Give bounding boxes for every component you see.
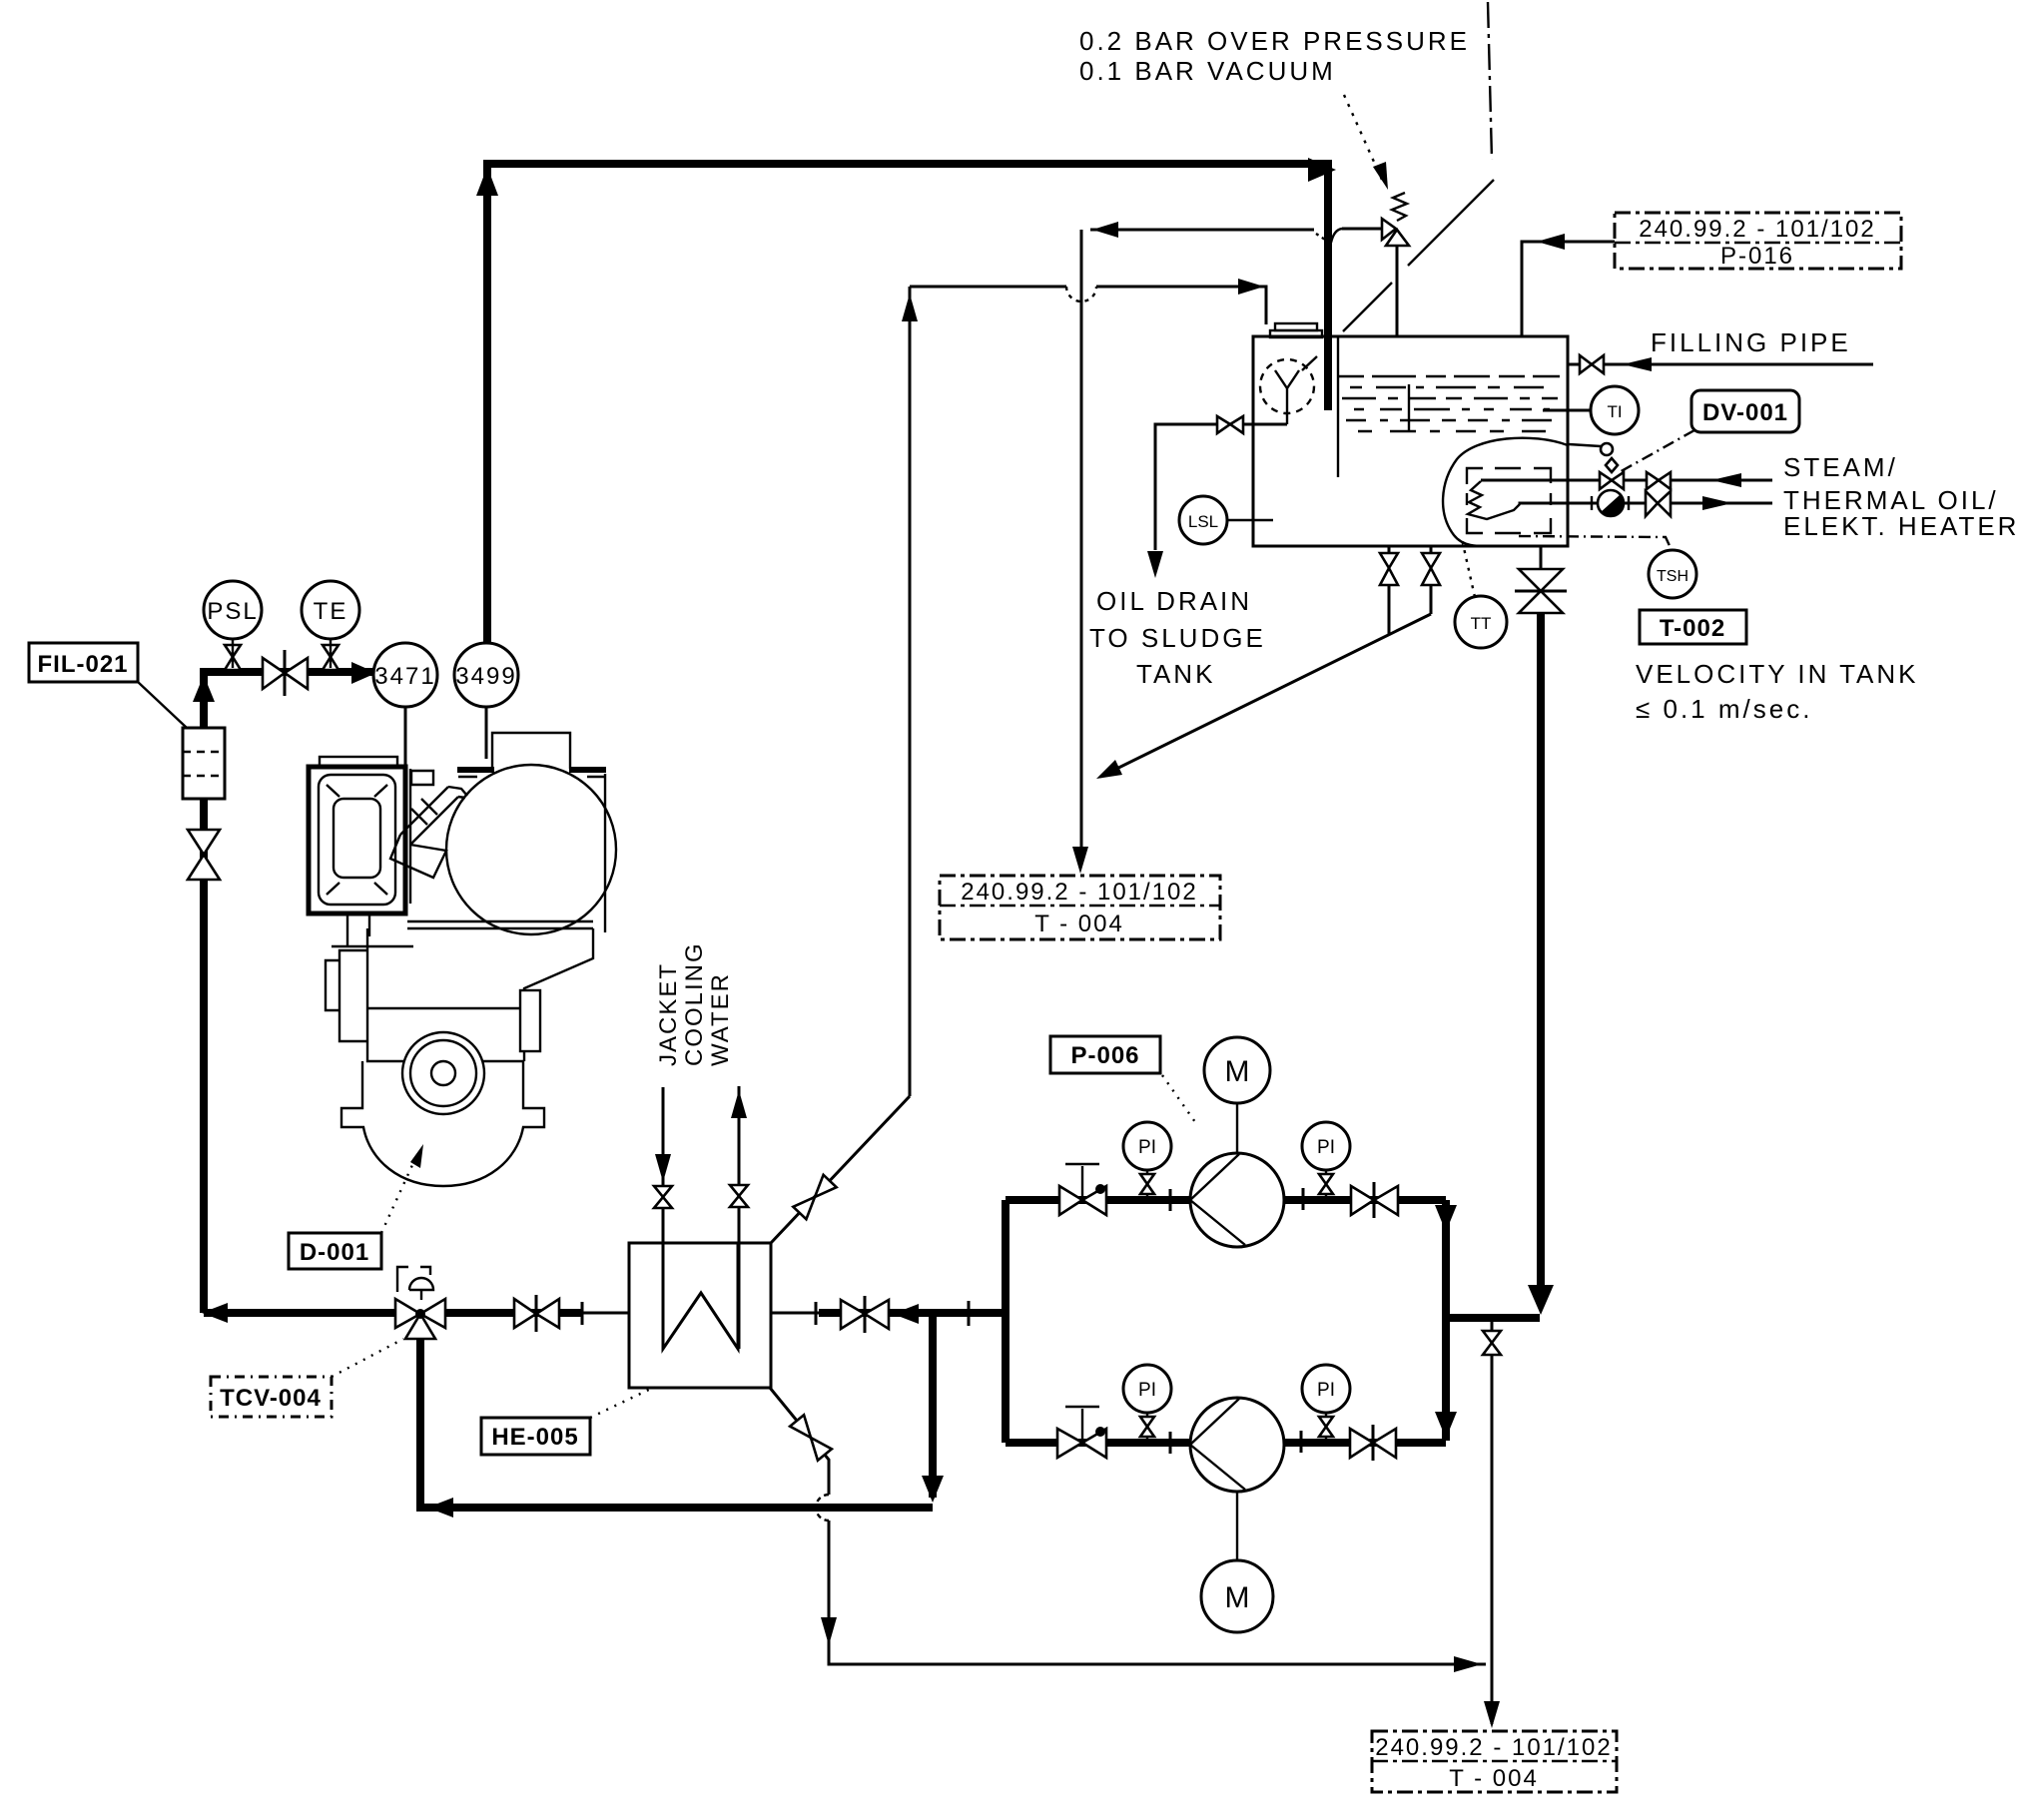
wire: bypass drop from HE outlet line (thick) [929, 1313, 937, 1498]
svg-text:P-016: P-016 [1720, 243, 1794, 270]
instrument LSL [1179, 496, 1227, 544]
wire: drop to T-004 reference (mid) [1080, 230, 1083, 854]
reference box 240.99.2-101/102 P-016 [1615, 213, 1901, 269]
leader to filter [138, 682, 187, 728]
HE coil lines (re-draw inside box) [663, 1243, 738, 1349]
flow arrow down to sludge [1147, 551, 1163, 578]
flow arrow down inline on drain [821, 1617, 837, 1645]
svg-text:VELOCITY IN TANK: VELOCITY IN TANK [1636, 659, 1919, 689]
valve on TCV-HE line (globe w/ bar) [514, 1299, 536, 1328]
flange ticks lower branch [1169, 1432, 1172, 1454]
heater bundle envelope curve [1443, 438, 1568, 546]
tank T-002 shell [1253, 336, 1568, 546]
flow arrow down into mid reference box [1072, 847, 1088, 874]
svg-text:TT: TT [1471, 614, 1492, 633]
valve on tank drain [1217, 416, 1230, 433]
wire: breather line to relief valve [1090, 229, 1382, 230]
valve on engine inlet pipe (globe w/ bar) [263, 658, 285, 689]
suction cock valve lower (w/ T handle) [1057, 1429, 1082, 1458]
engine: left auxiliaries [326, 950, 367, 1041]
isolation valve upper [1647, 472, 1659, 489]
flow arrow left (steam in) [1711, 473, 1741, 487]
engine: right side line [604, 774, 606, 932]
wire: engine inlet column (thick, left side) [204, 672, 373, 1313]
isolation valve lower [1646, 491, 1658, 516]
wire: heating medium inlet (upper) [1481, 479, 1772, 482]
flow arrow up on water outlet [731, 1090, 747, 1118]
wire: 3471 to engine [404, 707, 407, 767]
svg-text:T - 004: T - 004 [1449, 1765, 1539, 1792]
wire: HE drain diagonal [770, 1388, 829, 1495]
instrument TE [302, 581, 359, 639]
wire: oil line HE to pump header (thin then thick) [771, 1312, 819, 1315]
label P-006 [1050, 1036, 1160, 1073]
flow arrow up on vent riser [902, 294, 918, 321]
engine: top right box [492, 733, 570, 769]
wire: junction to tank suction (thick) [1446, 1314, 1540, 1322]
engine: block right slant [524, 928, 593, 1061]
flow arrow right (condensate out) [1702, 496, 1732, 510]
svg-text:OIL DRAIN: OIL DRAIN [1096, 586, 1252, 616]
motor M lower [1236, 1492, 1238, 1560]
wire: filling pipe [1568, 363, 1873, 366]
engine: charge air duct [411, 771, 433, 785]
sensor dip tube inside tank [1408, 384, 1410, 431]
svg-text:PI: PI [1317, 1380, 1335, 1401]
svg-text:TCV-004: TCV-004 [220, 1385, 322, 1412]
label HE-005 [481, 1418, 590, 1455]
wire: P-016 return into tank [1522, 242, 1615, 336]
engine: block body [367, 928, 524, 1061]
engine: housing corner ticks [327, 785, 387, 895]
valve on HE drain [790, 1415, 832, 1460]
svg-text:DV-001: DV-001 [1702, 399, 1788, 426]
flow arrow up at left column top corner [193, 675, 215, 702]
wire: relief valve to tank top [1396, 246, 1399, 336]
svg-text:≤ 0.1 m/sec.: ≤ 0.1 m/sec. [1636, 694, 1812, 724]
svg-text:JACKET: JACKET [655, 962, 682, 1066]
valve below filter [188, 830, 220, 855]
gauge PI lower-left [1123, 1365, 1171, 1413]
flow arrow right at drain end [1454, 1656, 1482, 1672]
wire: engine outlet riser and top return pipe (thick) [487, 164, 1328, 647]
flange ticks lower heater line [1591, 496, 1593, 510]
svg-text:PI: PI [1317, 1137, 1335, 1158]
svg-text:TANK: TANK [1136, 659, 1215, 689]
discharge valve upper (globe w/ bar) [1351, 1186, 1374, 1215]
wire: oil line engine column to TCV (thick) [204, 1309, 395, 1317]
manhole lid on tank top [1275, 323, 1317, 330]
wire: line to sludge tank reference (thin) [1491, 1318, 1494, 1724]
engine D-001 drawing [309, 733, 616, 1186]
spring on relief valve [1392, 193, 1407, 221]
svg-text:TE: TE [314, 598, 348, 625]
label D-001 [289, 1233, 381, 1269]
wire: vent riser from HE [909, 287, 912, 1096]
valve on water outlet [730, 1185, 748, 1196]
heater element [1468, 481, 1520, 519]
svg-text:240.99.2 - 101/102: 240.99.2 - 101/102 [1375, 1734, 1613, 1761]
flow arrow at sludge end [1096, 760, 1122, 779]
svg-text:HE-005: HE-005 [491, 1424, 578, 1451]
filter FIL-021 body [183, 728, 225, 799]
valve on HE vent [793, 1175, 836, 1219]
svg-text:240.99.2 - 101/102: 240.99.2 - 101/102 [961, 879, 1198, 906]
svg-text:WATER: WATER [707, 972, 734, 1066]
node 3499 (engine oil outlet) [454, 643, 518, 707]
heat exchanger HE-005 body [629, 1243, 771, 1388]
TCV-004 actuator [409, 1278, 433, 1290]
leader DV-001 [1618, 430, 1694, 473]
flow arrow up on riser [476, 167, 498, 196]
three-way valve TCV-004 [395, 1299, 420, 1328]
leader HE-005 [590, 1387, 655, 1418]
pump P-006 upper [1190, 1153, 1284, 1247]
flow arrows down on right header [1435, 1205, 1457, 1232]
motor M upper [1236, 1103, 1238, 1153]
wire: heating medium outlet (lower) [1520, 503, 1772, 504]
instrument TI [1543, 409, 1591, 412]
leader from D-001 to engine [381, 1154, 417, 1233]
wire: jacket water inlet line [662, 1087, 665, 1349]
valve on water inlet [654, 1186, 672, 1197]
valve on sludge reference line [1483, 1331, 1501, 1343]
engine: oil sump bell [341, 1061, 544, 1186]
wire: lower pump branch (thick) [1006, 1439, 1190, 1447]
flow arrow left at TCV inlet corner [202, 1303, 228, 1323]
wire: TCV bypass leg (thick) [420, 1339, 933, 1508]
wire: upper pump branch (thick) [1006, 1196, 1190, 1204]
svg-text:LSL: LSL [1188, 512, 1218, 531]
gauge PI upper-right [1302, 1122, 1350, 1170]
svg-text:STEAM/: STEAM/ [1783, 452, 1898, 482]
level pipe inside tank [1337, 336, 1339, 477]
svg-text:PI: PI [1138, 1380, 1156, 1401]
leader TCV-004 [332, 1339, 403, 1377]
flow arrow left on P-016 return [1537, 234, 1565, 250]
engine: flywheel [402, 1032, 484, 1114]
flange tick before HE [581, 1302, 584, 1325]
svg-text:0.1 BAR VACUUM: 0.1 BAR VACUUM [1079, 56, 1336, 86]
leader P-006 [1162, 1075, 1195, 1122]
valve on filling pipe [1580, 355, 1592, 373]
engine: housing supports [332, 913, 413, 946]
flow arrow left on breather line [1092, 222, 1118, 238]
svg-text:3499: 3499 [455, 663, 516, 690]
wire: drain diagonal to sludge [1100, 614, 1431, 777]
discharge valve lower (globe w/ bar) [1350, 1429, 1373, 1458]
svg-text:PI: PI [1138, 1137, 1156, 1158]
flow arrow left on bypass at corner [427, 1498, 453, 1517]
flow arrow down onto bypass line [922, 1476, 944, 1503]
engine: right cover [520, 990, 540, 1051]
svg-text:TI: TI [1607, 402, 1622, 421]
valve on HE outlet (globe w/ bar) [841, 1300, 865, 1329]
label T-002 [1640, 610, 1746, 644]
reference box 240.99.2-101/102 T-004 (bottom) [1372, 1731, 1617, 1792]
line hop over bypass (dashed arc) [816, 1495, 829, 1520]
svg-text:ELEKT. HEATER: ELEKT. HEATER [1783, 511, 2019, 541]
TE root valve [323, 645, 338, 657]
gauge PI upper-left [1123, 1122, 1171, 1170]
instrument TSH [1649, 550, 1696, 598]
relief/vacuum valve PSV [1382, 219, 1396, 240]
leader diagonal to vent funnel [1302, 180, 1494, 370]
svg-text:FIL-021: FIL-021 [37, 651, 128, 678]
wire: oil line TCV to HE (thick then thin) [445, 1309, 582, 1317]
heater element boundary (dashed bracket) [1467, 468, 1551, 533]
vent funnel in tank (dashed circle) [1260, 359, 1314, 413]
gauge PI lower-right [1302, 1365, 1350, 1413]
svg-text:P-006: P-006 [1070, 1042, 1139, 1069]
instrument PSL [204, 581, 262, 639]
flow arrow right into hatch [1238, 279, 1264, 295]
flange tick before pump header [968, 1301, 971, 1326]
leader from note to relief valve [1344, 95, 1382, 180]
node 3471 (engine oil inlet) [373, 643, 437, 707]
svg-text:COOLING: COOLING [681, 941, 708, 1066]
flow arrow down at junction [1528, 1285, 1554, 1315]
wire: suction downcomer (thick) [1537, 613, 1545, 1296]
flow arrow left toward HE [893, 1304, 919, 1324]
svg-text:T-002: T-002 [1660, 615, 1725, 642]
engine: block top [407, 921, 593, 928]
engine: air cooler housing [320, 757, 397, 768]
tank bottom drain valves [1388, 546, 1391, 555]
svg-text:M: M [1225, 1055, 1250, 1088]
flow arrow right before top corner [1308, 158, 1336, 182]
wire: pump loop left header (thick) [1002, 1200, 1010, 1443]
line hop over drop line [1066, 287, 1096, 302]
engine: turbocharger circle [446, 765, 616, 934]
svg-text:D-001: D-001 [300, 1239, 369, 1266]
steam trap [1598, 490, 1624, 516]
valve DV-001 (control) [1600, 472, 1612, 489]
flow arrow down into reference box [1484, 1701, 1500, 1728]
suction cock valve upper (w/ T handle) [1059, 1186, 1082, 1215]
wire: oil return branch to tank hatch [910, 287, 1266, 324]
label TCV-004 [211, 1377, 332, 1417]
wire: 3499 to engine [485, 707, 488, 759]
flow arrow down on water inlet [655, 1154, 671, 1182]
svg-text:0.2 BAR OVER PRESSURE: 0.2 BAR OVER PRESSURE [1079, 26, 1470, 56]
leader to TSH [1519, 536, 1672, 550]
line hop over thick pipe [1331, 229, 1342, 243]
engine: top manifold bars [457, 767, 606, 773]
PSL root valve [225, 645, 241, 657]
flange tick after HE [815, 1302, 818, 1325]
leader TT [1462, 539, 1475, 597]
svg-text:3471: 3471 [374, 663, 435, 690]
wire: tank suction outlet (to pumps) [1540, 546, 1543, 569]
svg-text:240.99.2 - 101/102: 240.99.2 - 101/102 [1639, 216, 1876, 243]
oil level hatching [1338, 375, 1560, 377]
svg-text:TO SLUDGE: TO SLUDGE [1089, 623, 1266, 653]
svg-text:M: M [1225, 1581, 1250, 1614]
wire: HE vent diagonal to tank return line [771, 1096, 910, 1243]
vessel centerline (dash-dot) [1488, 2, 1492, 160]
label FIL-021 [29, 643, 138, 682]
wire: tank drain to sludge (top left) [1155, 424, 1287, 550]
wire: thick return pipe inside tank (redraw over tank) [1324, 336, 1332, 410]
instrument TT [1455, 596, 1507, 648]
wire: pump loop right header (thick) [1442, 1200, 1450, 1441]
main suction valve [1519, 569, 1563, 591]
pump P-006 lower [1190, 1398, 1284, 1492]
svg-text:TSH: TSH [1657, 568, 1688, 585]
svg-text:FILLING PIPE: FILLING PIPE [1651, 327, 1851, 357]
wire: jacket water outlet line [738, 1086, 741, 1349]
svg-text:T - 004: T - 004 [1034, 910, 1124, 937]
wire: HE drain vertical + run to sludge header [829, 1520, 1486, 1664]
reference box 240.99.2-101/102 T-004 (mid) [940, 876, 1220, 939]
flange ticks upper branch [1169, 1189, 1172, 1211]
label DV-001 [1691, 390, 1799, 432]
svg-text:PSL: PSL [207, 598, 258, 625]
flow arrow left on filling pipe [1623, 357, 1652, 371]
flow arrow right into 3471 [351, 662, 376, 684]
